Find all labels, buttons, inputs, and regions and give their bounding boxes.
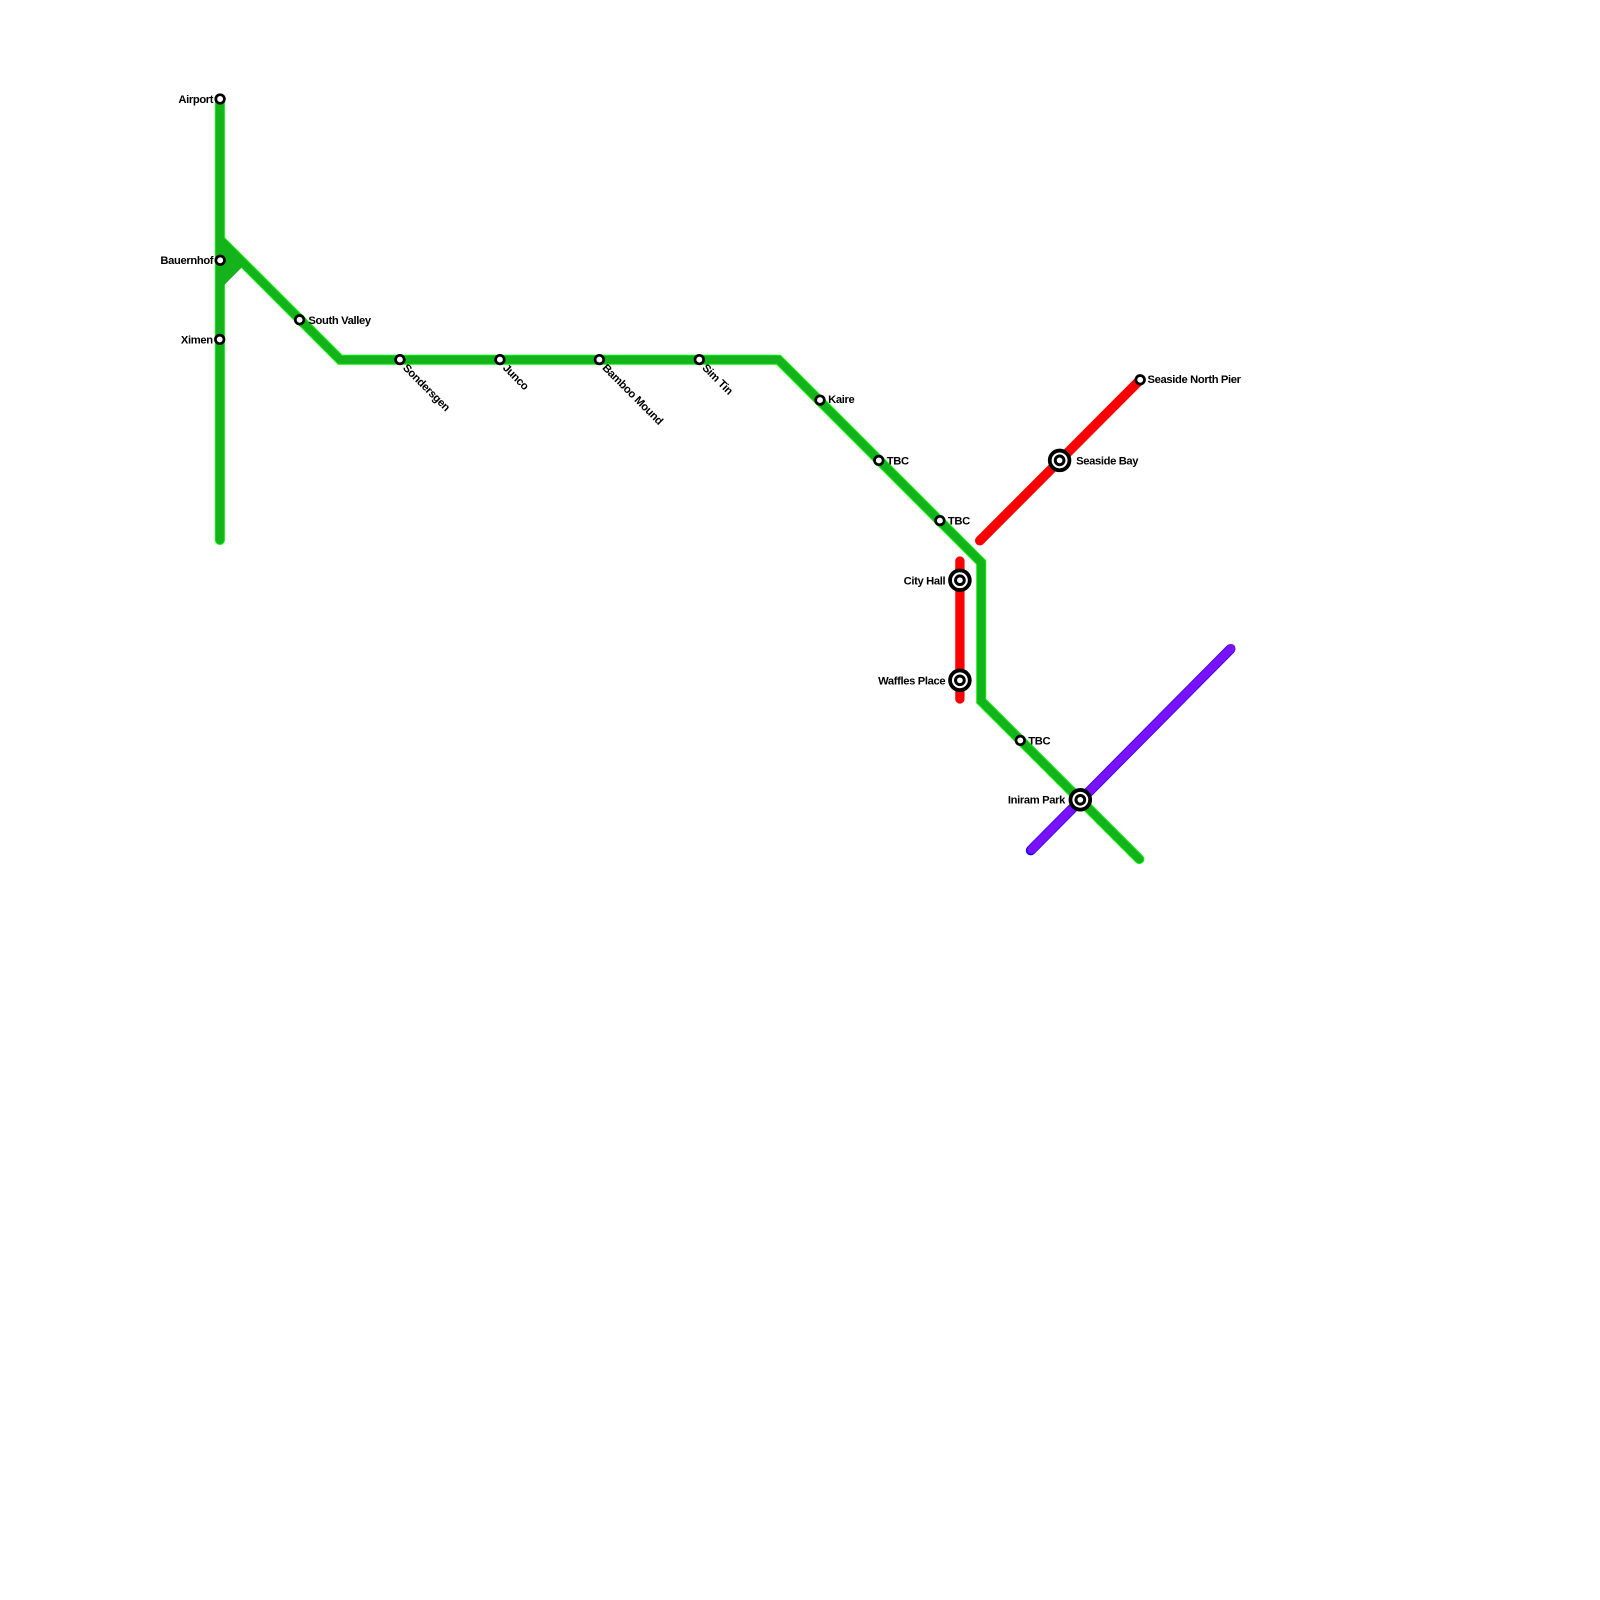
svg-text:Waffles Place: Waffles Place (878, 675, 945, 687)
svg-text:Bamboo Mound: Bamboo Mound (600, 362, 666, 428)
svg-text:TBC: TBC (887, 455, 909, 467)
svg-text:South Valley: South Valley (308, 315, 371, 327)
svg-text:Junco: Junco (500, 362, 531, 393)
svg-text:Kaire: Kaire (828, 394, 854, 406)
svg-text:Seaside North Pier: Seaside North Pier (1148, 374, 1242, 386)
svg-text:City Hall: City Hall (904, 575, 946, 587)
svg-text:TBC: TBC (1028, 735, 1050, 747)
svg-text:TBC: TBC (948, 516, 970, 528)
svg-text:Seaside Bay: Seaside Bay (1076, 455, 1139, 467)
svg-text:Airport: Airport (178, 94, 213, 106)
svg-text:Sondersgen: Sondersgen (400, 362, 452, 414)
svg-text:Sim Tin: Sim Tin (699, 362, 735, 398)
svg-text:Iniram Park: Iniram Park (1008, 795, 1066, 807)
svg-text:Bauernhof: Bauernhof (160, 255, 213, 267)
svg-text:Ximen: Ximen (181, 334, 213, 346)
